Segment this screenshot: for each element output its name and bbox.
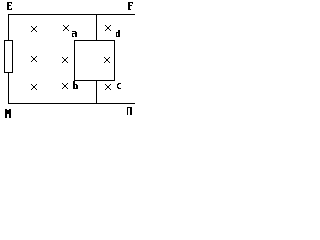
field symbol x row1 col1 bbox=[31, 26, 37, 32]
node label N bbox=[127, 107, 132, 115]
node label M bbox=[5, 109, 11, 118]
field symbol x row3 col1 bbox=[31, 84, 37, 90]
field symbol x inside frame bbox=[104, 57, 110, 63]
node label F bbox=[128, 2, 133, 10]
resistor R1 (left branch component) bbox=[5, 41, 13, 73]
field symbol x near d bbox=[105, 25, 111, 31]
conducting frame abcd bbox=[75, 41, 115, 81]
field symbol x row2 col1 bbox=[31, 56, 37, 62]
node label d bbox=[116, 30, 120, 37]
wire bottom rail M-N bbox=[8, 103, 135, 104]
field symbol x near c bbox=[105, 84, 111, 90]
wire left upper segment bbox=[8, 14, 9, 41]
node label b bbox=[73, 81, 78, 89]
wire bottom lead from frame bbox=[96, 81, 97, 103]
wire top lead to frame bbox=[96, 14, 97, 41]
node label E bbox=[7, 2, 12, 10]
field symbol x near b bbox=[62, 83, 68, 89]
field symbol x row2 col2 bbox=[62, 57, 68, 63]
wire top rail E-F bbox=[8, 14, 135, 15]
node label c bbox=[117, 83, 121, 89]
field symbol x near a bbox=[63, 25, 69, 31]
wire left lower segment bbox=[8, 72, 9, 103]
node label a bbox=[72, 31, 77, 37]
